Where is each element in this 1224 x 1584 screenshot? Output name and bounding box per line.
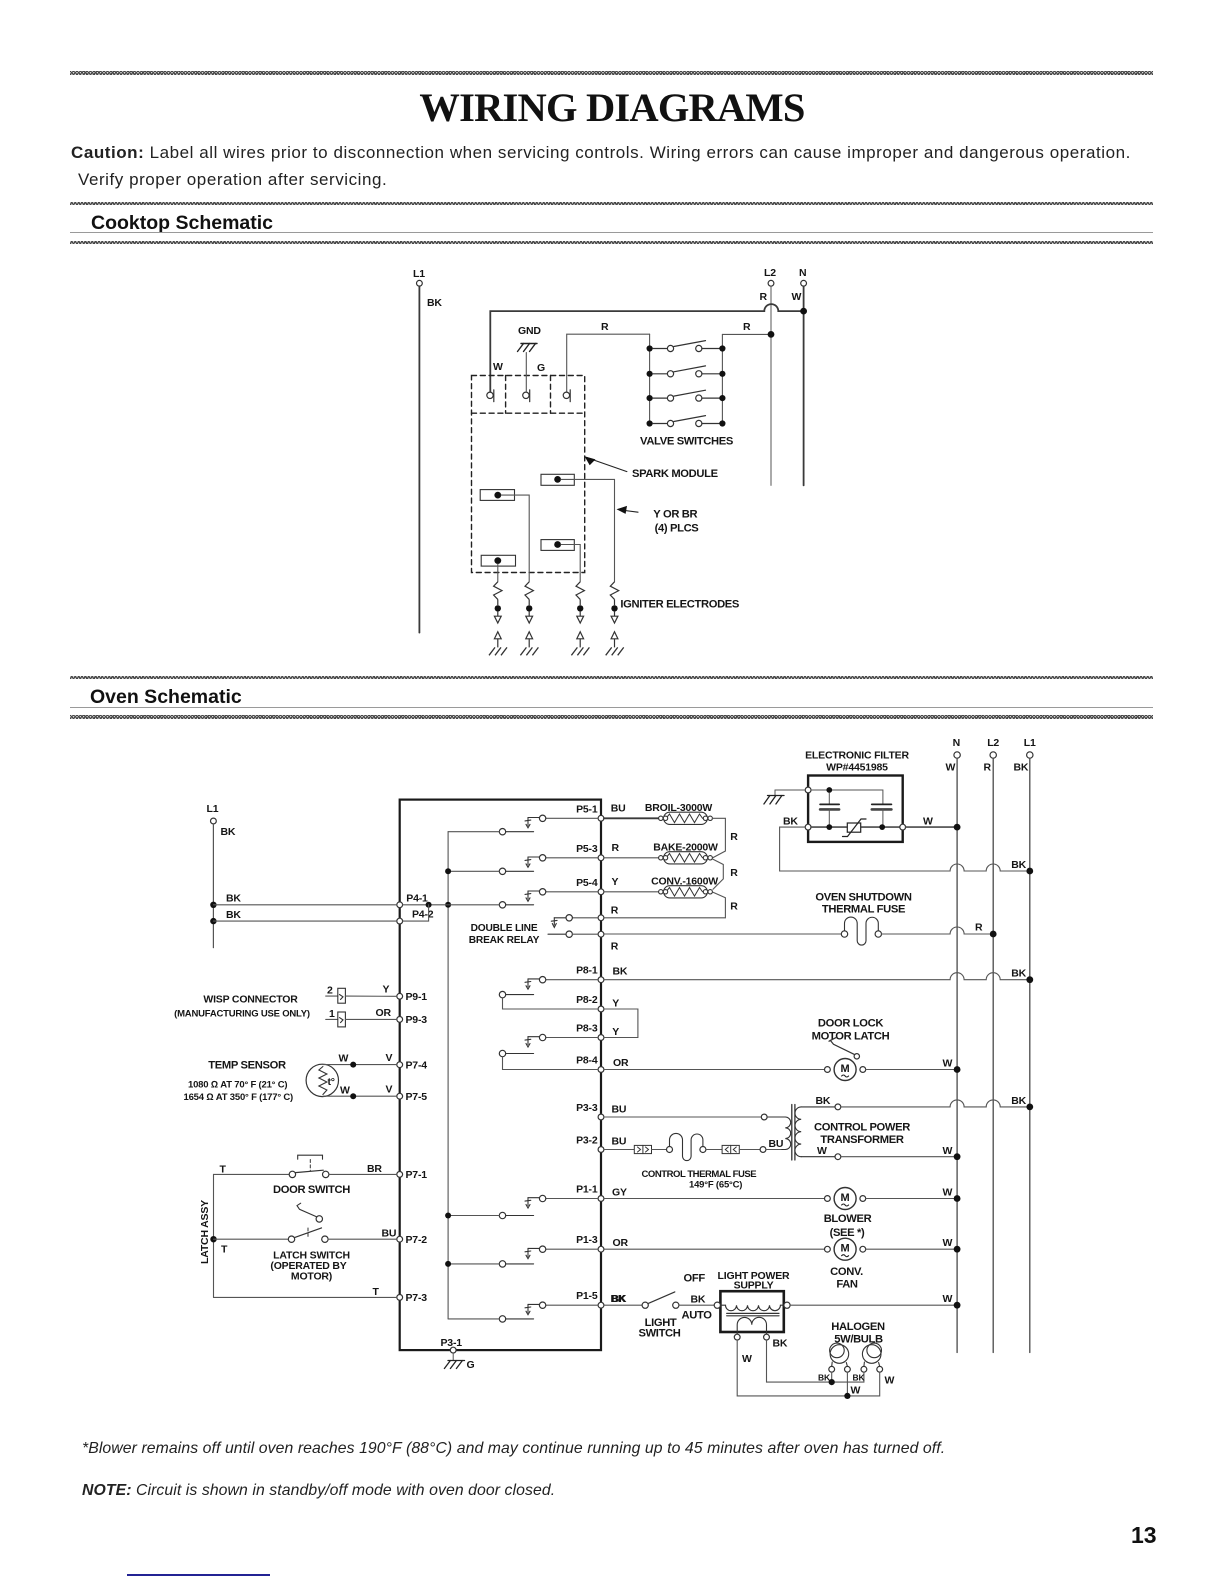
- svg-text:P3-3: P3-3: [576, 1102, 598, 1114]
- svg-text:G: G: [537, 362, 545, 374]
- svg-text:W: W: [339, 1053, 349, 1065]
- pin P3-2 (1149.5): [576, 1135, 604, 1153]
- spark module U1 dashed outline: [472, 376, 585, 573]
- control thermal fuse F2: [667, 1133, 706, 1160]
- pin R (917.8): [598, 915, 604, 921]
- svg-text:GY: GY: [612, 1187, 627, 1199]
- svg-text:W: W: [943, 1237, 953, 1249]
- svg-text:CONTROL POWER: CONTROL POWER: [814, 1122, 910, 1134]
- svg-text:W: W: [742, 1353, 752, 1365]
- svg-text:M: M: [841, 1063, 850, 1075]
- wire transformer BK to L1: [841, 1100, 1030, 1107]
- wire T2 to electrode 2: [501, 495, 529, 582]
- pin P8-2 (1009): [576, 994, 604, 1012]
- svg-text:L2: L2: [764, 267, 776, 279]
- spark module terminal T2: [480, 490, 514, 501]
- svg-text:BK: BK: [773, 1338, 788, 1350]
- node doorlock-N: [954, 1066, 961, 1073]
- svg-text:BK: BK: [427, 297, 442, 309]
- relay contact K-P8-1/P8-2: [499, 977, 598, 1010]
- svg-text:P4-1: P4-1: [406, 893, 428, 905]
- wire bulb1 BK drop: [831, 1372, 833, 1382]
- svg-text:BK: BK: [226, 893, 241, 905]
- wire T4 to electrode 1: [497, 564, 499, 582]
- wire P1-5 BK to light switch: [604, 1304, 642, 1306]
- svg-text:R: R: [984, 762, 992, 774]
- svg-text:P8-3: P8-3: [576, 1023, 598, 1035]
- svg-text:P5-3: P5-3: [576, 843, 598, 855]
- svg-text:MOTOR LATCH: MOTOR LATCH: [812, 1030, 890, 1042]
- svg-text:CONV.: CONV.: [830, 1266, 863, 1278]
- svg-text:P8-4: P8-4: [576, 1055, 598, 1067]
- varistor RV1: [843, 819, 867, 837]
- wire Y jumper P8-2 to P8-3: [604, 1009, 638, 1038]
- svg-text:BLOWER: BLOWER: [824, 1213, 872, 1225]
- wire sensor top to P7-4: [323, 1064, 397, 1066]
- wire P4-1 feed: [403, 904, 500, 906]
- pin P5-3 (857.8): [576, 843, 604, 861]
- svg-text:P3-2: P3-2: [576, 1135, 598, 1147]
- svg-text:V: V: [386, 1052, 393, 1064]
- svg-text:AUTO: AUTO: [682, 1310, 713, 1322]
- halogen bulb B1: [829, 1343, 851, 1372]
- wire W top with hop over L2: [490, 304, 803, 392]
- wire BK to P4-2: [213, 920, 396, 922]
- pin transformer BK: [835, 1104, 841, 1110]
- wire sensor bottom to P7-5: [323, 1095, 397, 1097]
- wire L1 vertical: [1029, 758, 1031, 1352]
- WISP pin 1: [326, 1008, 346, 1027]
- svg-text:R: R: [730, 901, 738, 913]
- svg-text:W: W: [493, 361, 503, 373]
- svg-text:R: R: [730, 831, 738, 843]
- wire bulb1 W drop: [846, 1372, 848, 1396]
- svg-text:W: W: [943, 1145, 953, 1157]
- wire transformer W to N: [841, 1156, 957, 1158]
- wire filter bottom rail: [811, 826, 900, 828]
- pin P7-5: [397, 1091, 427, 1103]
- node sensor bottom splice: [350, 1093, 356, 1099]
- pin filter-top: [805, 787, 811, 793]
- svg-text:WP#4451985: WP#4451985: [826, 761, 888, 773]
- pin filter W: [900, 824, 906, 830]
- node bus 871.3: [445, 868, 451, 874]
- svg-text:W: W: [923, 816, 933, 828]
- svg-text:OR: OR: [376, 1007, 392, 1019]
- svg-text:(SEE *): (SEE *): [830, 1227, 865, 1239]
- top hatched rule: [70, 71, 1153, 75]
- wire valve switch right rail: [721, 334, 723, 423]
- svg-text:THERMAL FUSE: THERMAL FUSE: [822, 904, 906, 916]
- svg-text:P1-1: P1-1: [576, 1184, 598, 1196]
- svg-text:149°F (65°C): 149°F (65°C): [689, 1180, 742, 1191]
- svg-text:TEMP SENSOR: TEMP SENSOR: [208, 1060, 286, 1072]
- svg-text:CONTROL THERMAL FUSE: CONTROL THERMAL FUSE: [642, 1169, 757, 1180]
- svg-text:P1-5: P1-5: [576, 1290, 598, 1302]
- svg-text:TRANSFORMER: TRANSFORMER: [820, 1134, 903, 1146]
- spark module terminal T4: [481, 555, 515, 566]
- wire filter BK loop to L1: [780, 827, 1030, 871]
- svg-text:BK: BK: [816, 1095, 831, 1107]
- wire R from spark module to valve switches: [567, 334, 650, 392]
- pin R of spark module: [563, 390, 570, 402]
- svg-text:P5-1: P5-1: [576, 803, 598, 815]
- heating element conv 1600W: [651, 876, 718, 898]
- ground G (P3-1): [444, 1353, 474, 1371]
- wire BK bus to bulbs: [767, 1340, 864, 1382]
- wire P5-3 to bake: [604, 857, 659, 859]
- svg-text:L1: L1: [1024, 737, 1036, 749]
- latch switch S2 (operated by motor): [214, 1203, 397, 1255]
- svg-text:BU: BU: [612, 1136, 627, 1148]
- svg-text:BU: BU: [382, 1228, 397, 1240]
- svg-text:W: W: [792, 291, 802, 303]
- svg-text:P1-3: P1-3: [576, 1234, 598, 1246]
- node transformer-N: [954, 1153, 961, 1160]
- svg-text:FAN: FAN: [836, 1279, 858, 1291]
- svg-text:R: R: [743, 321, 751, 333]
- halogen bulb B2: [861, 1343, 883, 1372]
- valve switch 3: [647, 390, 726, 401]
- node W-N junction: [800, 308, 807, 315]
- svg-text:HALOGEN: HALOGEN: [831, 1321, 885, 1333]
- svg-text:T: T: [221, 1244, 228, 1256]
- capacitor C2: [872, 804, 892, 827]
- wire N vertical: [956, 758, 958, 1352]
- cooktop heading rules: [70, 202, 1153, 205]
- wire latch to P7-3: [214, 1296, 397, 1298]
- svg-text:BK: BK: [818, 1372, 831, 1382]
- svg-text:P7-2: P7-2: [406, 1234, 428, 1246]
- svg-text:OFF: OFF: [684, 1272, 706, 1284]
- wire W bus to bulbs: [737, 1340, 880, 1396]
- svg-text:W: W: [885, 1375, 895, 1387]
- latch lever (door lock): [829, 1037, 860, 1059]
- valve switch 2: [647, 366, 726, 377]
- spark module pointer arrow: [587, 458, 627, 472]
- wire P3-2 BU: [604, 1149, 634, 1151]
- svg-text:Y OR BR: Y OR BR: [653, 509, 697, 521]
- node transformer-L1: [1026, 1104, 1033, 1111]
- svg-text:GND: GND: [518, 325, 541, 337]
- wire filter W to N: [906, 826, 958, 828]
- svg-text:R: R: [730, 867, 738, 879]
- pin P4-1: [397, 893, 428, 908]
- wire T1 to electrode 4: [561, 479, 615, 581]
- node bus 1263.9: [445, 1261, 451, 1267]
- wire P1-1 GY to blower: [604, 1198, 825, 1200]
- footnote NOTE: [82, 1482, 555, 1500]
- pin P1-5 (1305.2): [576, 1290, 604, 1308]
- svg-text:W: W: [943, 1187, 953, 1199]
- svg-text:P9-3: P9-3: [406, 1014, 428, 1026]
- node fuse-L2: [990, 931, 997, 938]
- fuse indicator box 2: [722, 1145, 739, 1153]
- wire filter top rail: [811, 790, 883, 804]
- heating element broil 3000W: [645, 802, 713, 824]
- svg-text:1654 Ω AT 350° F (177° C): 1654 Ω AT 350° F (177° C): [184, 1092, 294, 1103]
- svg-text:DOOR LOCK: DOOR LOCK: [818, 1018, 883, 1030]
- WISP pin 2: [326, 985, 346, 1004]
- svg-text:R: R: [760, 291, 768, 303]
- node filter bottom right: [879, 824, 885, 830]
- svg-text:VALVE SWITCHES: VALVE SWITCHES: [640, 436, 734, 448]
- svg-text:BK: BK: [783, 816, 798, 828]
- svg-text:LATCH ASSY: LATCH ASSY: [199, 1200, 211, 1264]
- svg-text:1: 1: [329, 1008, 335, 1020]
- igniter electrode E2: [520, 582, 538, 656]
- wire R return bus of elements: [604, 818, 725, 918]
- spark module terminal T3: [541, 540, 574, 551]
- node P4 tie: [426, 902, 432, 908]
- node convfan-N: [954, 1246, 961, 1253]
- wire door lock to N: [866, 1069, 957, 1071]
- wire latch assy left rail: [213, 1174, 215, 1297]
- pin R (934.2): [598, 931, 604, 937]
- wire P8-4 to door lock motor: [604, 1069, 825, 1071]
- svg-text:N: N: [953, 737, 960, 749]
- wire P5-4 to conv element: [604, 891, 659, 893]
- relay contact K-conv (P5-4): [499, 889, 598, 908]
- svg-text:BU: BU: [769, 1138, 784, 1150]
- relay contact K-light (P1-5): [448, 1302, 598, 1322]
- svg-text:W: W: [943, 1058, 953, 1070]
- pin P4-2: [397, 909, 434, 924]
- wire T3 to electrode 3: [561, 545, 580, 582]
- relay contact K-P8-3/P8-4: [499, 1034, 598, 1069]
- wire P1-3 OR to conv fan: [604, 1248, 825, 1250]
- node bulb1 BK: [829, 1379, 835, 1385]
- wire WISP1 to P9-3: [345, 1018, 396, 1020]
- svg-text:BK: BK: [221, 826, 236, 838]
- node BK-L1: [1026, 868, 1033, 875]
- page title: [419, 84, 804, 131]
- relay contact K-bake (P5-3): [448, 855, 598, 875]
- svg-text:BREAK RELAY: BREAK RELAY: [469, 935, 540, 946]
- svg-text:V: V: [386, 1084, 393, 1096]
- svg-text:OVEN SHUTDOWN: OVEN SHUTDOWN: [815, 892, 911, 904]
- spark module terminal T1: [541, 474, 574, 485]
- wire L1 drop: [212, 824, 214, 948]
- svg-text:OR: OR: [613, 1057, 629, 1069]
- pin P7-1: [397, 1169, 427, 1181]
- pin P1-3 (1249.2): [576, 1234, 604, 1252]
- footnote blower: [82, 1440, 945, 1458]
- relay contact K-broil (P5-1): [448, 815, 598, 835]
- fuse indicator box 1: [634, 1145, 651, 1153]
- svg-text:1080 Ω AT 70° F (21° C): 1080 Ω AT 70° F (21° C): [188, 1080, 287, 1091]
- pin filter BK: [805, 824, 811, 830]
- wire P4-2 tie: [403, 905, 429, 921]
- svg-text:IGNITER ELECTRODES: IGNITER ELECTRODES: [620, 599, 740, 611]
- wire internal bus from P4-1: [447, 832, 449, 1319]
- svg-text:Y: Y: [383, 984, 390, 996]
- svg-text:R: R: [601, 321, 609, 333]
- svg-text:SWITCH: SWITCH: [638, 1328, 680, 1340]
- capacitor C1: [820, 793, 839, 827]
- igniter electrode E3: [571, 582, 589, 656]
- svg-text:BK: BK: [1011, 968, 1026, 980]
- svg-text:P7-5: P7-5: [406, 1091, 428, 1103]
- motor blower M2: [825, 1188, 866, 1210]
- temp sensor RT1: [184, 1060, 339, 1104]
- svg-text:OR: OR: [613, 1237, 629, 1249]
- svg-text:BK: BK: [1011, 1095, 1026, 1107]
- node L1/P4-2: [210, 918, 216, 924]
- svg-text:BK: BK: [691, 1294, 706, 1306]
- terminal L1 (cooktop): [413, 268, 442, 309]
- ground GND above pin G: [518, 325, 542, 392]
- ground (filter): [764, 790, 805, 804]
- terminal L1 (oven): [1014, 737, 1037, 774]
- svg-text:DOOR SWITCH: DOOR SWITCH: [273, 1184, 350, 1196]
- svg-text:N: N: [799, 267, 806, 279]
- svg-text:L2: L2: [987, 737, 999, 749]
- svg-text:WISP CONNECTOR: WISP CONNECTOR: [203, 994, 298, 1006]
- pin P8-1 (979.7): [576, 965, 604, 983]
- svg-text:M: M: [841, 1243, 850, 1255]
- svg-text:MOTOR): MOTOR): [291, 1271, 332, 1283]
- igniter electrode E4: [606, 582, 624, 656]
- svg-text:M: M: [841, 1192, 850, 1204]
- svg-text:BK: BK: [611, 1293, 626, 1305]
- wire supply to N: [790, 1304, 957, 1306]
- wire WISP2 to P9-1: [345, 995, 396, 997]
- terminal N (oven): [946, 737, 961, 774]
- pin P3-1: [441, 1337, 463, 1353]
- svg-text:Y: Y: [612, 998, 619, 1010]
- wire P3-3 BU to transformer: [604, 1116, 761, 1118]
- oven heading rules: [70, 676, 1153, 679]
- svg-text:P4-2: P4-2: [412, 909, 434, 921]
- light power supply PS1: [714, 1270, 790, 1365]
- node supply-N: [954, 1302, 961, 1309]
- electronic filter U2 WP#4451985: [805, 750, 909, 842]
- svg-text:P7-3: P7-3: [406, 1292, 428, 1304]
- node blower-N: [954, 1195, 961, 1202]
- svg-text:BK: BK: [1011, 859, 1026, 871]
- node R-L2 junction: [768, 331, 775, 338]
- node filter bottom left: [826, 824, 832, 830]
- svg-text:L1: L1: [413, 268, 425, 280]
- node L1/P4-1: [210, 902, 216, 908]
- caution paragraph: [71, 143, 1131, 163]
- pin P8-4 (1069.5): [576, 1055, 604, 1073]
- terminal L1 (oven left): [207, 803, 236, 838]
- light switch S3: [642, 1292, 679, 1308]
- wire BK to P4-1: [213, 904, 396, 906]
- svg-text:SUPPLY: SUPPLY: [734, 1280, 774, 1292]
- relay contact K-convfan (P1-3): [448, 1246, 598, 1267]
- wire conv fan to N: [866, 1248, 957, 1250]
- svg-text:(MANUFACTURING USE ONLY): (MANUFACTURING USE ONLY): [174, 1009, 310, 1020]
- node bus 1215.5: [445, 1213, 451, 1219]
- svg-text:BK: BK: [613, 966, 628, 978]
- svg-text:T: T: [220, 1164, 227, 1176]
- svg-text:P7-1: P7-1: [406, 1169, 428, 1181]
- svg-text:Y: Y: [612, 876, 619, 888]
- svg-text:P8-2: P8-2: [576, 994, 598, 1006]
- pin P7-3: [397, 1292, 427, 1304]
- svg-text:L1: L1: [207, 803, 219, 815]
- svg-text:t°: t°: [328, 1076, 335, 1088]
- page number: [1131, 1522, 1157, 1549]
- svg-text:W: W: [946, 762, 956, 774]
- node filter top: [826, 787, 832, 793]
- svg-text:P8-1: P8-1: [576, 965, 598, 977]
- pin P7-2: [397, 1234, 427, 1246]
- svg-text:W: W: [817, 1145, 827, 1157]
- node sensor top splice: [350, 1062, 356, 1068]
- svg-text:(4) PLCS: (4) PLCS: [655, 523, 700, 535]
- heating element bake 2000W: [653, 842, 718, 864]
- svg-text:P5-4: P5-4: [576, 877, 598, 889]
- WISP connector (manufacturing use only): [174, 994, 310, 1020]
- svg-text:BK: BK: [1014, 762, 1029, 774]
- oven shutdown thermal fuse F1: [604, 892, 993, 946]
- svg-text:SPARK MODULE: SPARK MODULE: [632, 468, 719, 480]
- svg-text:ELECTRONIC FILTER: ELECTRONIC FILTER: [805, 750, 909, 762]
- node bulb1 W: [844, 1393, 850, 1399]
- svg-text:2: 2: [327, 985, 333, 997]
- pin P7-4: [397, 1059, 427, 1071]
- terminal N (cooktop): [792, 267, 807, 303]
- pin W of spark module: [487, 361, 503, 402]
- wire P5-1 to broil: [604, 817, 659, 819]
- svg-text:R: R: [611, 905, 619, 917]
- pin P9-1: [397, 991, 427, 1003]
- svg-text:Y: Y: [612, 1026, 619, 1038]
- node P8-1-L1: [1026, 976, 1033, 983]
- valve switch 1: [647, 341, 726, 352]
- valve switch 4: [647, 416, 726, 427]
- svg-text:G: G: [467, 1359, 475, 1371]
- svg-text:W: W: [851, 1385, 861, 1397]
- pin P3-3 (1117): [576, 1102, 604, 1120]
- pin P1-1 (1198.5): [576, 1184, 604, 1202]
- pin P8-3 (1037.5): [576, 1023, 604, 1041]
- node bus 904.8: [445, 902, 451, 908]
- control board box: [400, 800, 601, 1351]
- svg-text:DOUBLE LINE: DOUBLE LINE: [471, 923, 538, 934]
- motor conv fan M3: [825, 1238, 866, 1260]
- pin P5-4 (891.8): [576, 877, 604, 895]
- bottom blue mark: [127, 1574, 270, 1576]
- svg-text:W: W: [340, 1085, 350, 1097]
- wire R from valve switches to L2: [722, 333, 771, 335]
- terminal L2 (cooktop): [760, 267, 777, 303]
- svg-text:P9-1: P9-1: [406, 991, 428, 1003]
- pin transformer W: [835, 1154, 841, 1160]
- svg-text:R: R: [975, 922, 983, 934]
- relay contact K-double-line-break: [548, 915, 598, 938]
- wire L1 vertical BK: [418, 286, 420, 632]
- svg-text:BK: BK: [853, 1372, 866, 1382]
- wire blower to N: [866, 1198, 957, 1200]
- wire L2 vertical R: [770, 286, 772, 485]
- wire valve switch left rail: [649, 334, 651, 423]
- svg-text:W: W: [943, 1293, 953, 1305]
- svg-text:R: R: [611, 941, 619, 953]
- svg-text:BK: BK: [226, 909, 241, 921]
- pin P9-3: [397, 1014, 427, 1026]
- motor door lock M1: [825, 1059, 866, 1081]
- svg-text:R: R: [612, 842, 620, 854]
- terminal L2 (oven): [984, 737, 1000, 774]
- wire P8-1 BK to L1: [604, 973, 1030, 980]
- relay contact K-blower (P1-1): [448, 1195, 598, 1218]
- door switch S1: [214, 1155, 397, 1177]
